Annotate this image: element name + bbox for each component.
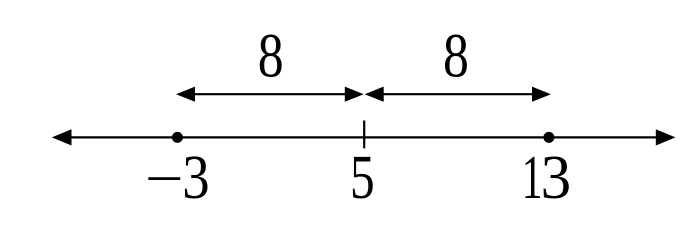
svg-text:8: 8 xyxy=(258,22,284,91)
node: right arrowhead of number line xyxy=(656,129,676,145)
svg-text:8: 8 xyxy=(443,22,469,91)
wire: main number line xyxy=(63,136,664,138)
svg-text:3: 3 xyxy=(541,143,572,212)
node: upper-left arrow right head xyxy=(345,87,364,102)
node: upper-right arrow right head xyxy=(532,87,551,102)
wire: upper-left distance arrow shaft xyxy=(192,93,348,95)
svg-text:5: 5 xyxy=(350,144,375,213)
node: left arrowhead of number line xyxy=(52,129,72,145)
svg-text:1: 1 xyxy=(522,142,543,213)
node: tick at 5 xyxy=(363,121,365,149)
node: point at 13 xyxy=(543,132,554,143)
node: point at -3 xyxy=(172,132,183,143)
node: upper-left arrow left head xyxy=(176,87,195,102)
node: upper-right arrow left head xyxy=(365,87,384,102)
wire: upper-right distance arrow shaft xyxy=(380,93,536,95)
svg-text:3: 3 xyxy=(182,142,209,212)
label: minus sign of -3 xyxy=(148,177,180,180)
